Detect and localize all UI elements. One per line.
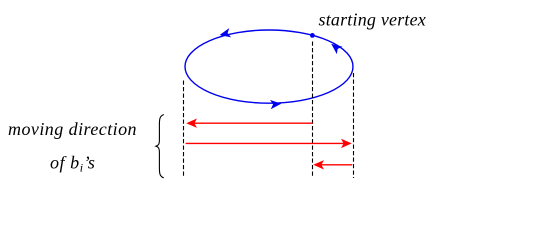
blue arrowhead bottom (pointing right along cycle) <box>270 99 281 109</box>
svg-text:moving direction: moving direction <box>8 119 137 139</box>
dashed line left <box>183 81 185 179</box>
cycle ellipse <box>185 30 353 103</box>
starting vertex dot <box>310 33 315 38</box>
blue arrowhead top-left (pointing left along cycle) <box>219 28 232 39</box>
dashed line right <box>353 73 355 178</box>
svg-text:starting vertex: starting vertex <box>319 10 426 30</box>
blue arrowhead upper-right (pointing up-left toward starting vertex) <box>328 40 342 54</box>
svg-text:of bi’s: of bi’s <box>50 153 95 175</box>
red arrow 3 (right line to middle line, pointing left) <box>313 160 352 169</box>
red arrow 2 (left line to right line, pointing right) <box>186 139 352 148</box>
curly brace <box>156 115 164 178</box>
red arrow 1 (middle line to left line, pointing left) <box>186 119 312 128</box>
dashed line middle (below starting vertex) <box>312 42 314 179</box>
